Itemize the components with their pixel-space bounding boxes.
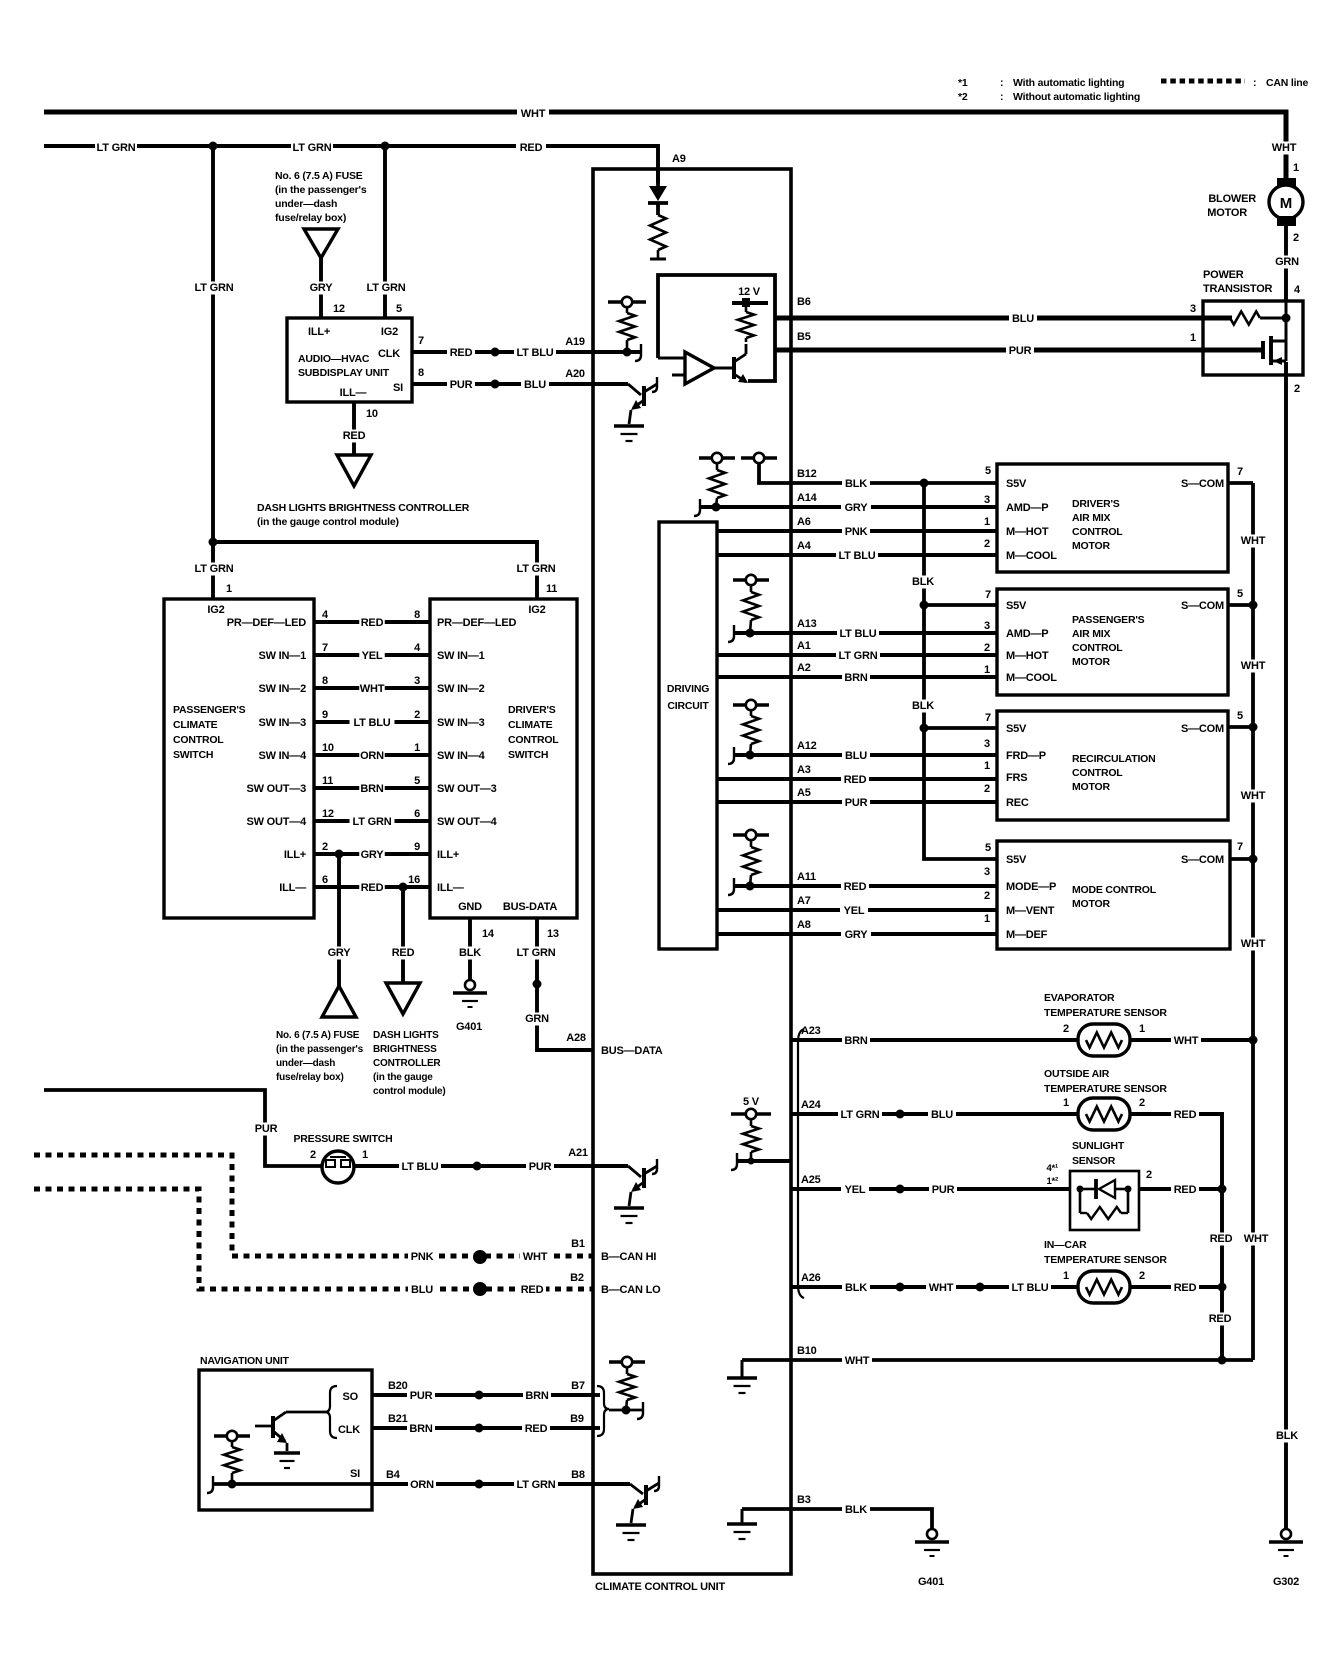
svg-text:WHT: WHT [360, 683, 385, 695]
svg-text:FRD—P: FRD—P [1006, 750, 1046, 762]
wire LT GRN left vertical [211, 146, 215, 599]
svg-text:A13: A13 [797, 618, 817, 630]
svg-text:LT GRN: LT GRN [517, 1479, 556, 1491]
svg-text:3: 3 [414, 675, 420, 687]
svg-text:With automatic lighting: With automatic lighting [1013, 77, 1124, 89]
svg-text:RED: RED [1174, 1109, 1197, 1121]
svg-text:2: 2 [1146, 1169, 1152, 1181]
svg-text:PUR: PUR [255, 1123, 278, 1135]
svg-text:BUS—DATA: BUS—DATA [601, 1045, 663, 1057]
svg-text:WHT: WHT [1241, 660, 1266, 672]
svg-text:SW IN—2: SW IN—2 [259, 683, 307, 695]
svg-text:TEMPERATURE SENSOR: TEMPERATURE SENSOR [1044, 1007, 1167, 1019]
wire BLU A12 to FRD-P [734, 753, 997, 757]
wire GRY switch row ILL+ [314, 852, 430, 856]
svg-text:1: 1 [1139, 1023, 1145, 1035]
svg-text:5: 5 [985, 465, 991, 477]
svg-text:7: 7 [418, 335, 424, 347]
svg-text:A26: A26 [801, 1272, 821, 1284]
svg-text:CIRCUIT: CIRCUIT [667, 700, 709, 712]
svg-text:PUR: PUR [450, 379, 473, 391]
wire PUR/BRN B20 to B7 [372, 1393, 593, 1397]
junction RED ILL- [399, 883, 408, 892]
svg-text:WHT: WHT [1241, 938, 1266, 950]
svg-text:LT BLU: LT BLU [353, 717, 390, 729]
svg-text:B21: B21 [388, 1413, 408, 1425]
svg-text:MOTOR: MOTOR [1207, 207, 1247, 219]
svg-text:PUR: PUR [845, 797, 868, 809]
svg-text::: : [1000, 77, 1003, 89]
audio-HVAC subdisplay unit [287, 318, 412, 402]
wire S-COM to WHT bus [1228, 603, 1253, 607]
svg-text:A21: A21 [568, 1147, 588, 1159]
wire SI internal [213, 1482, 372, 1486]
svg-text:(in the gauge: (in the gauge [373, 1072, 433, 1083]
svg-text:S—COM: S—COM [1181, 600, 1224, 612]
svg-text:3: 3 [1190, 303, 1196, 315]
svg-text:DRIVER'S: DRIVER'S [1072, 498, 1120, 510]
svg-text:7: 7 [1237, 466, 1243, 478]
svg-text:A12: A12 [797, 740, 817, 752]
svg-text:ILL+: ILL+ [284, 849, 306, 861]
svg-text:CLIMATE: CLIMATE [173, 719, 218, 731]
svg-text:1: 1 [984, 516, 990, 528]
svg-text:3: 3 [984, 620, 990, 632]
svg-text:M: M [1280, 195, 1293, 212]
svg-text:IN—CAR: IN—CAR [1044, 1239, 1087, 1251]
svg-text:SENSOR: SENSOR [1072, 1155, 1116, 1167]
svg-text:BRN: BRN [844, 1035, 867, 1047]
pull-up in nav unit [214, 1434, 250, 1438]
wire A20 to transistor Q1 [593, 382, 628, 386]
svg-text:GRN: GRN [1275, 256, 1299, 268]
transistor in nav unit [255, 1425, 273, 1428]
brace joining B7/B9 [593, 1393, 600, 1397]
wire S-COM to WHT bus [1230, 857, 1253, 861]
svg-text:12 V: 12 V [738, 286, 761, 298]
svg-text:RED: RED [844, 881, 867, 893]
wire BLK GND pin 14 to G401 [468, 918, 472, 980]
12V supply symbol [732, 301, 768, 305]
wire PNK A6 to M-HOT [717, 529, 997, 533]
svg-text:SWITCH: SWITCH [173, 749, 213, 761]
svg-text:DASH LIGHTS BRIGHTNESS CONTROL: DASH LIGHTS BRIGHTNESS CONTROLLER [257, 502, 470, 514]
svg-text:CLK: CLK [338, 1424, 360, 1436]
wire S5V passenger air mix [924, 603, 997, 607]
svg-text:BLU: BLU [1012, 313, 1034, 325]
svg-text:G401: G401 [918, 1576, 944, 1588]
svg-text:2: 2 [1293, 232, 1299, 244]
svg-text:LT GRN: LT GRN [839, 650, 878, 662]
svg-text:GRY: GRY [361, 849, 385, 861]
svg-text:3: 3 [984, 494, 990, 506]
svg-text:BRN: BRN [360, 783, 383, 795]
svg-text:RED: RED [450, 347, 473, 359]
svg-text:B4: B4 [386, 1469, 401, 1481]
svg-text:7: 7 [322, 642, 328, 654]
dashed wire B-CAN HI [34, 1155, 593, 1256]
svg-text:A7: A7 [797, 895, 811, 907]
svg-text:LT GRN: LT GRN [841, 1109, 880, 1121]
svg-text:1: 1 [984, 664, 990, 676]
transistor Q2 output [714, 367, 734, 370]
power transistor unit [1203, 301, 1303, 375]
svg-text:PR—DEF—LED: PR—DEF—LED [437, 617, 517, 629]
svg-text:IG2: IG2 [381, 326, 398, 338]
svg-text:ILL—: ILL— [279, 882, 306, 894]
svg-text:GRN: GRN [525, 1013, 549, 1025]
svg-text:LT GRN: LT GRN [517, 563, 556, 575]
wire S-COM to WHT bus [1228, 481, 1253, 485]
svg-text:16: 16 [408, 874, 420, 886]
resistor below diode [650, 215, 666, 250]
svg-text:RED: RED [1174, 1184, 1197, 1196]
svg-text:LT BLU: LT BLU [838, 550, 875, 562]
svg-text:POWER: POWER [1203, 269, 1244, 281]
recirculation control motor [997, 711, 1228, 820]
svg-text:BRN: BRN [409, 1423, 432, 1435]
svg-text:SW IN—3: SW IN—3 [437, 717, 485, 729]
svg-text:BUS-DATA: BUS-DATA [503, 901, 557, 913]
dash lights brightness controller symbol (triangle down) [337, 455, 371, 486]
svg-text:7: 7 [985, 589, 991, 601]
svg-text:OUTSIDE AIR: OUTSIDE AIR [1044, 1068, 1110, 1080]
diode at A9 [656, 169, 660, 186]
svg-text:PRESSURE SWITCH: PRESSURE SWITCH [293, 1133, 392, 1145]
svg-text:RED: RED [361, 617, 384, 629]
wire BRN switch row SW OUT—3 [314, 786, 430, 790]
svg-text:ILL+: ILL+ [308, 326, 330, 338]
svg-text:FRS: FRS [1006, 772, 1027, 784]
svg-text:CONTROL: CONTROL [508, 734, 559, 746]
svg-text:11: 11 [322, 775, 333, 787]
svg-text:SI: SI [393, 382, 403, 394]
svg-text:AUDIO—HVAC: AUDIO—HVAC [298, 353, 370, 365]
svg-text:A4: A4 [797, 540, 812, 552]
svg-text:*2: *2 [958, 91, 968, 103]
junction GRY ILL+ [335, 850, 344, 859]
svg-text:EVAPORATOR: EVAPORATOR [1044, 992, 1115, 1004]
svg-text:LT GRN: LT GRN [517, 947, 556, 959]
svg-text:LT BLU: LT BLU [516, 347, 553, 359]
blower motor M [1277, 178, 1296, 188]
svg-text:CLIMATE: CLIMATE [508, 719, 553, 731]
svg-text:5 V: 5 V [743, 1096, 760, 1108]
svg-text:RED: RED [1209, 1313, 1232, 1325]
wire BLK B12 to S5V driver air mix [759, 463, 997, 483]
svg-text:LT GRN: LT GRN [195, 563, 234, 575]
svg-text:5: 5 [414, 775, 420, 787]
svg-text:ILL+: ILL+ [437, 849, 459, 861]
svg-text:SI: SI [350, 1468, 360, 1480]
wire RED to lower brightness controller [401, 887, 405, 983]
svg-text:SO: SO [343, 1391, 359, 1403]
svg-text:WHT: WHT [521, 108, 546, 120]
svg-text:2: 2 [984, 783, 990, 795]
svg-text:SWITCH: SWITCH [508, 749, 548, 761]
dashed wire B-CAN LO [34, 1189, 593, 1289]
svg-text:BLU: BLU [845, 750, 867, 762]
svg-text:13: 13 [547, 928, 559, 940]
svg-text:S5V: S5V [1006, 600, 1027, 612]
driving circuit block [659, 522, 717, 949]
svg-text:LT GRN: LT GRN [97, 142, 136, 154]
buffer amp triangle [658, 357, 685, 360]
svg-text:9: 9 [322, 709, 328, 721]
wire RED switch row ILL— [314, 885, 430, 889]
svg-text:1: 1 [1293, 162, 1299, 174]
svg-text:RED: RED [525, 1423, 548, 1435]
svg-text:PASSENGER'S: PASSENGER'S [1072, 614, 1145, 626]
brace for SO/CLK [325, 1386, 337, 1438]
resistor inside power transistor [1230, 312, 1260, 325]
ground for B3 inside unit [741, 1509, 744, 1523]
svg-text:RED: RED [520, 142, 543, 154]
svg-text:5: 5 [985, 842, 991, 854]
12V driver block outline [658, 275, 775, 381]
wire PUR B5 to power transistor pin 1 (gate) [775, 348, 1263, 353]
svg-text:2: 2 [984, 890, 990, 902]
svg-text:SW IN—3: SW IN—3 [259, 717, 307, 729]
svg-text:10: 10 [322, 742, 334, 754]
svg-text:2: 2 [322, 841, 328, 853]
svg-text:MOTOR: MOTOR [1072, 540, 1111, 552]
svg-text:RECIRCULATION: RECIRCULATION [1072, 753, 1156, 765]
svg-text:LT BLU: LT BLU [401, 1161, 438, 1173]
svg-text:RED: RED [392, 947, 415, 959]
svg-text:control module): control module) [373, 1086, 446, 1097]
svg-text:BRN: BRN [525, 1390, 548, 1402]
svg-text:A20: A20 [565, 368, 585, 380]
pull-up at A13 [733, 578, 769, 582]
wire GRY A8 to M-DEF [717, 932, 997, 936]
svg-text:CONTROLLER: CONTROLLER [373, 1058, 441, 1069]
svg-text:GND: GND [458, 901, 482, 913]
svg-text:7: 7 [1237, 841, 1243, 853]
svg-text:LT BLU: LT BLU [1011, 1282, 1048, 1294]
svg-text:CONTROL: CONTROL [1072, 642, 1123, 654]
svg-text:2: 2 [1063, 1023, 1069, 1035]
svg-text:B1: B1 [571, 1238, 585, 1250]
svg-text:under—dash: under—dash [276, 1058, 335, 1069]
svg-text:2: 2 [984, 538, 990, 550]
svg-text:*1: *1 [958, 77, 968, 89]
wire GRN blower to power transistor [1284, 226, 1288, 301]
svg-text:LT GRN: LT GRN [367, 282, 406, 294]
svg-text:fuse/relay box): fuse/relay box) [275, 212, 346, 224]
svg-text:1: 1 [984, 760, 990, 772]
svg-text:BLK: BLK [845, 1504, 867, 1516]
wire RED to RED bus [1131, 1114, 1222, 1360]
svg-text:GRY: GRY [845, 929, 869, 941]
svg-text:BLOWER: BLOWER [1208, 193, 1256, 205]
svg-text:SUBDISPLAY UNIT: SUBDISPLAY UNIT [298, 367, 390, 379]
svg-text:B5: B5 [797, 331, 811, 343]
svg-text:CLIMATE CONTROL UNIT: CLIMATE CONTROL UNIT [595, 1581, 726, 1593]
svg-text:GRY: GRY [328, 947, 352, 959]
svg-text:fuse/relay box): fuse/relay box) [276, 1072, 344, 1083]
svg-text:BRN: BRN [844, 672, 867, 684]
wire RED sunlight to bus [1139, 1187, 1222, 1191]
svg-text:5: 5 [1237, 588, 1243, 600]
svg-text:SW OUT—3: SW OUT—3 [246, 783, 306, 795]
svg-text:10: 10 [366, 408, 378, 420]
wire WHT B10 to sensor return bus [742, 1358, 1253, 1362]
svg-text:M—HOT: M—HOT [1006, 526, 1049, 538]
svg-text:CONTROL: CONTROL [173, 734, 224, 746]
svg-text:M—DEF: M—DEF [1006, 929, 1048, 941]
svg-text:2: 2 [310, 1149, 316, 1161]
transistor Q1 [642, 386, 646, 406]
transistor Q3 at A21 [593, 1164, 628, 1168]
svg-text:SW IN—1: SW IN—1 [259, 650, 307, 662]
svg-text:S—COM: S—COM [1181, 478, 1224, 490]
svg-text:S5V: S5V [1006, 478, 1027, 490]
svg-text:B3: B3 [797, 1494, 811, 1506]
mode control motor [997, 841, 1230, 949]
svg-text:B6: B6 [797, 296, 811, 308]
wire BRN/RED B21 to B9 [372, 1426, 593, 1430]
svg-text:Without automatic lighting: Without automatic lighting [1013, 91, 1140, 103]
svg-text:S—COM: S—COM [1181, 854, 1224, 866]
svg-text:PUR: PUR [529, 1161, 552, 1173]
resistor below 12V [745, 306, 748, 312]
svg-text:WHT: WHT [1174, 1035, 1199, 1047]
svg-text:RED: RED [1174, 1282, 1197, 1294]
svg-text:A1: A1 [797, 640, 811, 652]
svg-text:BLK: BLK [912, 700, 934, 712]
ground for Q1 [629, 410, 631, 424]
svg-text:A24: A24 [801, 1099, 822, 1111]
junction [623, 348, 632, 357]
svg-text:M—VENT: M—VENT [1006, 905, 1055, 917]
svg-text:14: 14 [482, 928, 495, 940]
svg-text:(in the gauge control module): (in the gauge control module) [257, 516, 399, 528]
pull-up at A12 [733, 703, 769, 707]
svg-text:2: 2 [1294, 383, 1300, 395]
svg-text:LT GRN: LT GRN [293, 142, 332, 154]
FET inside power transistor [1261, 341, 1265, 359]
svg-text:(in the passenger's: (in the passenger's [275, 184, 367, 196]
svg-text::: : [1253, 77, 1256, 89]
fuse symbol (triangle down) [304, 229, 338, 258]
svg-text:SW OUT—4: SW OUT—4 [437, 816, 498, 828]
svg-text:ORN: ORN [360, 750, 384, 762]
svg-text:M—HOT: M—HOT [1006, 650, 1049, 662]
svg-text:SW OUT—3: SW OUT—3 [437, 783, 497, 795]
svg-text:6: 6 [322, 874, 328, 886]
svg-text:B—CAN LO: B—CAN LO [601, 1284, 661, 1296]
svg-text:AMD—P: AMD—P [1006, 628, 1048, 640]
svg-text:BLK: BLK [459, 947, 481, 959]
wire LT GRN A1 to M-HOT [717, 653, 997, 657]
svg-text:RED: RED [343, 430, 366, 442]
passengers air mix control motor [997, 589, 1228, 695]
svg-text:WHT: WHT [1272, 142, 1297, 154]
svg-text:YEL: YEL [362, 650, 383, 662]
svg-text:B12: B12 [797, 468, 817, 480]
svg-text:TEMPERATURE SENSOR: TEMPERATURE SENSOR [1044, 1254, 1167, 1266]
svg-text:A3: A3 [797, 764, 811, 776]
wire YEL switch row SW IN—1 [314, 653, 430, 657]
svg-text:PR—DEF—LED: PR—DEF—LED [227, 617, 307, 629]
svg-text:6: 6 [414, 808, 420, 820]
svg-text:MOTOR: MOTOR [1072, 781, 1111, 793]
svg-text:MODE—P: MODE—P [1006, 881, 1056, 893]
svg-text:LT GRN: LT GRN [195, 282, 234, 294]
wire LT BLU A13 to AMD-P [734, 631, 997, 635]
svg-text:WHT: WHT [929, 1282, 954, 1294]
svg-text:12: 12 [333, 303, 345, 315]
wire RED A11 to MODE-P [734, 884, 997, 888]
svg-text:8: 8 [322, 675, 328, 687]
wire BRN A2 to M-COOL [717, 675, 997, 679]
svg-text:5: 5 [396, 303, 402, 315]
BLK bus vertical [924, 483, 997, 859]
svg-text:DRIVER'S: DRIVER'S [508, 704, 556, 716]
ground G401 (switch) [465, 980, 475, 990]
svg-text:SW IN—4: SW IN—4 [259, 750, 308, 762]
svg-text:B9: B9 [570, 1413, 584, 1425]
svg-text:YEL: YEL [845, 1184, 866, 1196]
svg-text:MOTOR: MOTOR [1072, 656, 1111, 668]
svg-text:8: 8 [418, 367, 424, 379]
svg-text:A6: A6 [797, 516, 811, 528]
svg-text:12: 12 [322, 808, 334, 820]
svg-text:S5V: S5V [1006, 854, 1027, 866]
svg-text:2: 2 [1139, 1097, 1145, 1109]
wire LT BLU switch row SW IN—3 [314, 720, 430, 724]
pull-up at B7/B9 [609, 1360, 645, 1364]
svg-text:IG2: IG2 [528, 604, 545, 616]
legend CAN line sample [1161, 79, 1245, 84]
svg-text:WHT: WHT [1241, 790, 1266, 802]
svg-text:B10: B10 [797, 1345, 817, 1357]
svg-text:BLU: BLU [411, 1284, 433, 1296]
WHT S-COM bus vertical [1251, 483, 1255, 1360]
wire LT GRN to subdisplay pin 5 [383, 146, 387, 318]
svg-text:PUR: PUR [932, 1184, 955, 1196]
svg-text:TEMPERATURE SENSOR: TEMPERATURE SENSOR [1044, 1083, 1167, 1095]
wire BLK B3 to G401 [742, 1509, 932, 1529]
svg-text:CAN line: CAN line [1266, 77, 1309, 89]
wire GRY A14 to AMD-P [700, 505, 997, 509]
svg-text:ORN: ORN [410, 1479, 434, 1491]
svg-text:BRIGHTNESS: BRIGHTNESS [373, 1044, 437, 1055]
junction [1282, 314, 1291, 323]
wire LT GRN link to driver switch [213, 542, 537, 599]
svg-text:CLK: CLK [378, 348, 400, 360]
svg-text:PNK: PNK [411, 1251, 434, 1263]
svg-text:5: 5 [1237, 710, 1243, 722]
svg-text:1*²: 1*² [1046, 1176, 1058, 1187]
svg-text:8: 8 [414, 609, 420, 621]
svg-text:LT BLU: LT BLU [839, 628, 876, 640]
wire RED subdisplay ILL- pin 10 [352, 402, 356, 455]
svg-text:B20: B20 [388, 1380, 408, 1392]
svg-text:BLK: BLK [845, 1282, 867, 1294]
svg-text:CONTROL: CONTROL [1072, 526, 1123, 538]
svg-text:BLU: BLU [524, 379, 546, 391]
svg-text:RED: RED [1210, 1233, 1233, 1245]
climate control unit [593, 169, 791, 1574]
passenger climate control switch [164, 599, 314, 918]
svg-text:A14: A14 [797, 492, 818, 504]
ground for B10 inside unit [741, 1360, 744, 1377]
svg-text:4*¹: 4*¹ [1046, 1163, 1058, 1174]
svg-text:A11: A11 [797, 871, 816, 883]
svg-text:2: 2 [414, 709, 420, 721]
